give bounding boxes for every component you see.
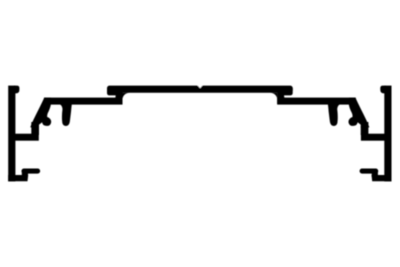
top web (raised center flange) <box>107 86 293 93</box>
tooth B <box>59 104 72 126</box>
tooth D <box>328 104 341 126</box>
diagonal strut merged with tooth A <box>30 98 51 128</box>
left half group <box>8 86 129 182</box>
right step riser <box>277 89 284 104</box>
right riser toe fillet <box>284 97 286 98</box>
left riser <box>31 122 39 135</box>
right top nub <box>380 86 386 94</box>
right half group (mirror) <box>270 86 391 182</box>
right riser <box>361 122 369 135</box>
center notch <box>197 85 202 88</box>
lower web <box>44 98 123 105</box>
left step riser <box>116 89 123 104</box>
right foot finger <box>362 169 376 174</box>
left step fillet <box>122 93 129 99</box>
right mid stub <box>361 134 386 141</box>
lower web right <box>277 98 356 105</box>
right step fillet <box>270 93 277 99</box>
left foot bottom bar <box>8 175 28 181</box>
diagonal strut merged with tooth C <box>349 98 370 128</box>
left foot shoulder <box>22 170 28 177</box>
left top nub <box>14 86 20 94</box>
right foot bottom bar <box>372 175 392 181</box>
left foot finger <box>24 169 38 174</box>
right lip of top web <box>284 88 293 95</box>
left riser toe fillet <box>114 97 116 98</box>
right wall <box>384 86 391 182</box>
left wall <box>8 86 15 182</box>
left lip of top web <box>107 88 116 95</box>
left mid stub <box>14 134 39 141</box>
right foot shoulder <box>372 170 378 177</box>
